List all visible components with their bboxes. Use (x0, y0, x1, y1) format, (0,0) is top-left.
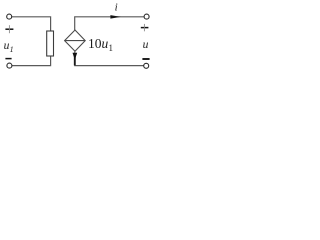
svg-text:1: 1 (10, 45, 14, 54)
plus sign left (5, 25, 13, 33)
svg-text:u: u (102, 36, 109, 51)
terminal bottom-left (7, 63, 12, 68)
diamond bottom lead with down arrow and bottom-right rail (75, 51, 144, 65)
plus sign right (141, 24, 149, 31)
svg-text:i: i (115, 2, 118, 14)
resistor R (47, 31, 54, 56)
minus sign right (142, 58, 149, 60)
svg-text:u: u (143, 39, 149, 51)
current arrow i (110, 15, 120, 19)
wire top-left rail with corner down to resistor (12, 17, 51, 31)
svg-text:10: 10 (88, 36, 102, 51)
svg-text:1: 1 (109, 43, 114, 53)
wire diamond top lead and top-right rail (75, 17, 144, 30)
terminal top-left (7, 14, 12, 19)
dependent source diamond 10u1 (65, 30, 86, 51)
background (0, 0, 155, 88)
terminal top-right (144, 14, 149, 19)
wire bottom-left rail with corner up to resistor (12, 56, 51, 66)
terminal bottom-right (144, 63, 149, 68)
minus sign left (5, 58, 11, 60)
